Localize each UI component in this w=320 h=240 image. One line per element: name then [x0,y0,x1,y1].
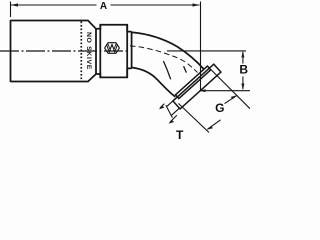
dimension B bottom arrow [241,84,244,91]
serration dotted line [80,22,82,82]
flange head block and plate (rotated 48) [163,62,221,116]
dimension T marks [160,104,177,123]
T arrow 2 [169,120,175,124]
svg-text:B: B [239,63,248,77]
G extension line from flange plate bottom corner [179,104,210,133]
T extension stub front [172,108,180,115]
G extension line from flange valley [211,69,250,108]
dimension G lower arrow [206,126,213,130]
elbow tube inner curve [132,68,176,97]
flange hub edge arc on tube [163,61,170,79]
dimension A line [11,4,200,6]
W logo hexagon [105,43,120,54]
T extension stub back [167,101,173,106]
tube bend centerline dashed [130,46,198,73]
dimension B line [242,52,244,89]
B bottom reference line [200,90,251,92]
svg-text:NO SKIVE: NO SKIVE [85,32,92,70]
svg-text:A: A [100,1,107,12]
flange plate [173,64,221,109]
B reference line left arrow at flange face center [199,89,205,92]
svg-text:G: G [215,101,224,115]
flange hub edge tick upper [184,66,187,72]
dimension A right arrow [193,3,200,6]
dimension A left arrow [11,3,18,6]
elbow tube outer curve [132,32,204,69]
dimension B top arrow [241,51,244,58]
svg-text:T: T [176,128,184,140]
dimension G line [208,96,237,129]
flange head block [175,66,210,98]
dimension A extension line left [10,2,12,18]
dimension G upper arrow [231,95,238,99]
centerline horizontal dash-dot full width [0,50,130,52]
T arrow 1 [159,106,165,110]
dimension A extension line right [200,2,202,92]
shell outline [11,20,132,82]
